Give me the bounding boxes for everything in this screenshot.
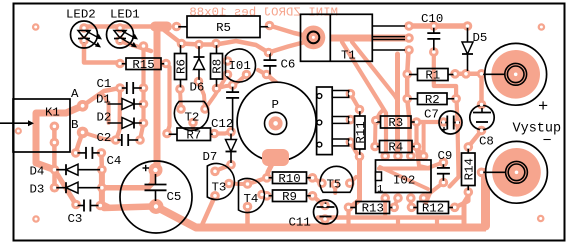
pad (232.6,85) [228, 80, 238, 90]
pad (166,63.5) [161, 59, 171, 69]
resistor R13 [349, 202, 395, 216]
svg-text:I01: I01 [229, 59, 251, 73]
svg-text:R1: R1 [425, 69, 440, 83]
pad (76,204.5) [71, 200, 81, 210]
pad (325,205.5) [320, 201, 330, 211]
transistor T1 [301, 14, 406, 62]
svg-text:C1: C1 [97, 77, 112, 91]
wire lower rail [318, 215, 462, 220]
resistor R12 [412, 202, 455, 216]
mounting hole top right [538, 23, 546, 31]
wire I02 bottom 3 [409, 198, 413, 207]
wire ground band [196, 224, 486, 232]
pad (409,26) [404, 21, 414, 31]
wire T3 bottom diagonal [202, 196, 215, 225]
pad (467.5,26) [463, 21, 473, 31]
wire riser C11 [323, 219, 327, 228]
pad (167,133.5) [162, 129, 172, 139]
diode D3 [30, 182, 102, 196]
pad (246.5,74.5) [242, 70, 252, 80]
wire T5 right stub [350, 177, 356, 183]
pad (350.4,93.7) [346, 89, 356, 99]
mounting hole bottom left [32, 215, 40, 223]
pad (407.2,74) [402, 69, 412, 79]
pad (269.5,25.5) [265, 21, 275, 31]
pad (409,50) [404, 45, 414, 55]
wire D3 to C5 plus [104, 171, 155, 188]
resistor R6 [175, 44, 189, 90]
wire R10 left to T4 top [248, 178, 267, 184]
pad (385.2,156) [380, 151, 390, 161]
resistor R4 [375, 141, 417, 155]
wire T1 bottom to R1 R2 lefts [407, 50, 411, 157]
svg-text:T4: T4 [244, 192, 259, 206]
resistor R9 [267, 190, 313, 204]
pad (359.5,109.5) [355, 105, 365, 115]
pad (423.6,156) [419, 151, 429, 161]
pad (54.4,142.5) [50, 138, 60, 148]
node junction blob [155, 22, 167, 32]
pad (468.3,146.9) [464, 142, 474, 152]
wire riser x398 [396, 218, 400, 228]
wire R4 right to C9 top [417, 147, 444, 169]
wire R3 left stub [376, 110, 384, 121]
pad (215,171.3) [210, 167, 220, 177]
capacitor C7 [424, 108, 462, 135]
wire T1 to I02 diagonal [352, 42, 398, 100]
pad (180,89) [175, 84, 185, 94]
wire C6 top to T1 pad [269, 40, 312, 53]
output terminal plus [481, 43, 546, 105]
resistor R3 [376, 116, 417, 130]
pad (433.8,26) [429, 21, 439, 31]
svg-text:B: B [71, 118, 78, 132]
svg-text:C9: C9 [438, 149, 453, 163]
diode D7 [203, 132, 237, 165]
pad (205,109) [200, 104, 210, 114]
wire LED2 bottom to R15 [84, 41, 120, 64]
label plus [538, 98, 548, 117]
wire C10 bottom down [434, 52, 456, 99]
svg-text:LED2: LED2 [66, 8, 96, 22]
pad (120,28) [115, 23, 125, 33]
pad (481.5,104.5) [477, 100, 487, 110]
svg-text:Vystup: Vystup [513, 122, 562, 137]
svg-text:MINI ZDROJ bes 10x88: MINI ZDROJ bes 10x88 [189, 6, 338, 20]
transistor T2 [174, 101, 208, 130]
svg-text:R13: R13 [362, 202, 384, 216]
pad (375.8,120.5) [371, 116, 381, 126]
pad (468.3,192) [464, 187, 474, 197]
svg-text:R10: R10 [278, 172, 300, 186]
svg-text:R15: R15 [132, 58, 154, 72]
wire C9 bottom diagonal [424, 183, 443, 198]
svg-text:P: P [272, 98, 279, 112]
pad (54.5,187.7) [50, 183, 60, 193]
wire blob to D6 R8 pads [164, 30, 269, 53]
svg-text:R14: R14 [462, 158, 476, 180]
resistor R1 [407, 69, 455, 83]
resistor R5 [177, 16, 270, 38]
pad (349.8,183.2) [345, 178, 355, 188]
pad (321.9,183.2) [317, 178, 327, 188]
svg-text:R12: R12 [422, 202, 444, 216]
pad (143.5,88) [139, 83, 149, 93]
wire top rail T1 to D5 [409, 23, 468, 29]
pad (176.5,26.5) [172, 22, 182, 32]
pad (120,88) [115, 83, 125, 93]
wire I01 to C12 [233, 75, 247, 86]
wire blob to R10 left [267, 164, 272, 178]
capacitor C3 [68, 200, 101, 227]
mounting hole top left [32, 23, 40, 31]
pad (398,156) [393, 151, 403, 161]
pad (409,38) [404, 33, 414, 43]
wire C4 right down [99, 153, 104, 170]
pad (181.5,43.5) [177, 39, 187, 49]
svg-text:D3: D3 [30, 183, 45, 197]
wire R10 right to T5 left [313, 178, 323, 183]
wire T1 to I02 pad1 diagonal [342, 42, 386, 156]
pad (385.2,198) [380, 193, 390, 203]
pad (262,194.5) [257, 190, 267, 200]
svg-text:R4: R4 [388, 141, 403, 155]
LED D-LED1 [107, 21, 139, 48]
pad (416.5,122) [412, 117, 422, 127]
pad (101.4,152.9) [97, 148, 107, 158]
pad (466,73.8) [461, 69, 471, 79]
wire T4 bottom down [245, 207, 250, 228]
resistor R8 [211, 44, 225, 89]
wire R9 right to C11 top [313, 196, 326, 206]
pad (481.5,172.3) [477, 168, 487, 178]
pad (101.9,187.7) [97, 183, 107, 193]
pad (247.5,184) [243, 179, 253, 189]
svg-text:−: − [543, 133, 552, 150]
svg-text:C6: C6 [281, 58, 296, 72]
capacitor C11 [289, 200, 338, 230]
wire I02 bottom 2 [394, 198, 398, 207]
pad (443.4,182.5) [439, 178, 449, 188]
diode D1 [96, 93, 144, 110]
pad (227.5,74.5) [223, 70, 233, 80]
pad (75.7,152.9) [71, 148, 81, 158]
svg-text:A: A [71, 87, 79, 101]
pad (443.4,162.4) [439, 158, 449, 168]
wire D7 bottom to T3 top [215, 165, 231, 172]
wire C8 bottom to R14 [468, 131, 481, 147]
wire terminal2 lead [482, 170, 492, 175]
resistor R15 [120, 58, 166, 72]
wire I01 to T2 right [205, 75, 228, 110]
wire LED1 bottom to vertical [120, 41, 151, 51]
pad (457.5,122.5) [453, 118, 463, 128]
wire K1 inner pads [52, 126, 57, 169]
wire LED tops [84, 24, 152, 29]
pad (216.5,88.5) [212, 84, 222, 94]
pad (247.5,206.5) [243, 202, 253, 212]
pad (115.7,140) [111, 135, 121, 145]
wire P bottom pad down [350, 142, 359, 156]
wire R4 right to I02 pad4 [417, 148, 424, 157]
pad (394.2,207.3) [389, 203, 399, 213]
pad P center [269, 116, 283, 130]
svg-text:R9: R9 [282, 190, 297, 204]
svg-text:R5: R5 [216, 21, 231, 35]
wire C7 right to R2 right [457, 99, 458, 123]
pad (481.5,73.8) [477, 69, 487, 79]
pad (423.6,198) [419, 193, 429, 203]
svg-text:+: + [538, 98, 548, 117]
svg-text:R3: R3 [388, 116, 403, 130]
wire R1 right rail to terminal [455, 72, 491, 77]
pad (443.5,122) [439, 117, 449, 127]
label LED1 [110, 8, 140, 22]
pad (198.5,81.5) [194, 77, 204, 87]
pad (410.8,156) [406, 151, 416, 161]
svg-text:K1: K1 [45, 106, 60, 120]
pad (375,146.5) [370, 142, 380, 152]
transistor T3 [207, 164, 234, 200]
wire R15 right to R7 left [166, 64, 170, 134]
pad (266.5,74.5) [262, 70, 272, 80]
pad (481.5,130.5) [477, 126, 487, 136]
svg-text:1: 1 [377, 184, 383, 196]
wire riser R13 [346, 211, 350, 228]
wire R6 bottom to T2 [180, 89, 181, 109]
potentiometer P [237, 82, 349, 161]
wire I01 right to C6 bottom [258, 70, 267, 75]
wire vertical x397 [395, 54, 401, 156]
svg-text:T3: T3 [212, 181, 227, 195]
op-amp I01 [226, 49, 256, 82]
svg-text:C10: C10 [421, 12, 443, 26]
resistor R14 [462, 147, 477, 192]
svg-text:C8: C8 [479, 135, 494, 149]
svg-text:C12: C12 [211, 117, 233, 131]
pad (143.5,123) [139, 118, 149, 128]
pad (143.5,46) [139, 41, 149, 51]
wire C1 right column [140, 46, 144, 140]
svg-text:C7: C7 [424, 108, 439, 122]
svg-text:R11: R11 [354, 121, 368, 143]
resistor R10 [267, 172, 313, 186]
svg-text:C5: C5 [167, 190, 182, 204]
wire D6 bottom down [199, 82, 206, 110]
wire D4 to C3 diagonal [55, 170, 77, 205]
wire R14 bottom to R12 right [455, 192, 469, 207]
svg-text:R8: R8 [211, 59, 225, 74]
wire K1 A to C1 [83, 88, 120, 106]
pad (312.5,177.8) [308, 173, 318, 183]
wire T5 center down [333, 185, 337, 194]
pad (181,109) [176, 104, 186, 114]
svg-text:D5: D5 [473, 31, 488, 45]
svg-text:I02: I02 [393, 174, 415, 188]
pad (54.4,126.3) [50, 122, 60, 132]
op-amp I02 [376, 160, 432, 196]
diode D2 [97, 111, 144, 129]
pad (215,195.8) [210, 191, 220, 201]
wire riser x437 [435, 218, 439, 228]
pad (216,43.5) [211, 39, 221, 49]
wire I02 horizontal inside [379, 167, 429, 171]
capacitor C10 [421, 12, 443, 52]
wire R8 bottom to C12 [217, 86, 233, 89]
svg-text:D2: D2 [97, 111, 112, 125]
pad (398,198) [393, 193, 403, 203]
pad (350.4,142.1) [346, 137, 356, 147]
node blob under P [262, 149, 289, 166]
pad (120,63.5) [115, 59, 125, 69]
diode D5 [462, 26, 487, 71]
pad (433.8,52) [429, 47, 439, 57]
capacitor C6 [264, 53, 296, 75]
pad (266.8,195.8) [262, 191, 272, 201]
svg-text:D7: D7 [203, 150, 218, 164]
wire terminal2 to band [481, 172, 490, 226]
wire I02 diagonal inside [380, 167, 428, 189]
pad (84,40.5) [79, 36, 89, 46]
svg-text:T1: T1 [341, 49, 356, 63]
svg-text:LED1: LED1 [110, 8, 140, 22]
wire R3 right to C7 [417, 120, 444, 124]
pad (325,219) [320, 214, 330, 224]
label LED2 [66, 8, 96, 22]
pad K1 B [77, 127, 89, 139]
transistor T4 [239, 179, 265, 213]
label Vystup [513, 122, 562, 137]
pad (227.5,61) [223, 56, 233, 66]
wire T4 right to R9 left [262, 195, 267, 196]
pad (456.1,98.7) [451, 94, 461, 104]
wire P top to R11 top [350, 94, 359, 110]
capacitor C9 [437, 149, 452, 183]
transistor T5 [320, 166, 353, 192]
pad K1 A [77, 100, 89, 112]
svg-text:R2: R2 [425, 93, 440, 107]
wire K1 B to C4 [76, 132, 83, 153]
pad (335.2,184.5) [330, 180, 340, 190]
pad (143.5,104) [139, 99, 149, 109]
pad C5 center [149, 199, 164, 214]
wire C1 left column [116, 88, 120, 140]
resistor R11 [354, 110, 368, 157]
wire R7 right to D7 top [214, 132, 231, 134]
capacitor C12 [211, 85, 239, 132]
capacitor C2 [97, 131, 141, 146]
pad (359.5,156.5) [355, 152, 365, 162]
wire T1 middle thick [330, 35, 409, 42]
svg-text:R6: R6 [175, 59, 189, 74]
pad (407.2,98.7) [402, 94, 412, 104]
wire D4 D3 lefts [52, 170, 57, 188]
svg-text:D4: D4 [30, 165, 45, 179]
pad (54.5,169.7) [50, 165, 60, 175]
wire T2 center stub [191, 123, 195, 129]
pad (199,44.5) [194, 40, 204, 50]
wire R3 R4 lefts [373, 121, 378, 147]
diode D4 [30, 164, 102, 178]
pad (454.7,207.3) [450, 203, 460, 213]
wire D3 column down [102, 170, 110, 208]
output terminal minus [482, 141, 547, 203]
wire K1 big trace [36, 106, 83, 170]
svg-text:C11: C11 [289, 216, 311, 230]
wire I02 pin fan 4 [422, 122, 426, 156]
pad (455.1,73.8) [450, 69, 460, 79]
pad K1 inner [15, 127, 22, 134]
pad (193,122.5) [188, 118, 198, 128]
svg-text:C3: C3 [68, 212, 83, 226]
wire C7 right down C9 [450, 123, 459, 187]
wire I02 bottom 4 [424, 193, 430, 203]
pad (84,28) [79, 23, 89, 33]
capacitor C5 [120, 161, 192, 233]
pad (231,131.8) [226, 127, 236, 137]
resistor R2 [407, 93, 456, 107]
svg-text:C4: C4 [107, 154, 122, 168]
pad (266.8,177.8) [262, 173, 272, 183]
label minus [543, 133, 552, 150]
svg-text:C2: C2 [97, 131, 112, 145]
wire R14 bottom to band [464, 196, 468, 226]
wire C5 to band diagonal [156, 207, 196, 228]
diode D6 [190, 45, 205, 95]
pad (229,183.5) [224, 179, 234, 189]
mirrored copper text MINI ZDROJ bes 10x88 [189, 6, 338, 20]
pad (411.5,207.3) [407, 203, 417, 213]
pad C5 plus [149, 163, 163, 177]
pad (312.5,195.8) [308, 191, 318, 201]
wire D1 D2 lefts [104, 96, 109, 123]
pad (101.9,169.7) [97, 165, 107, 175]
pad (268.5,52.5) [264, 48, 274, 58]
capacitor C4 [76, 147, 122, 168]
pad (350.4,119.6) [346, 115, 356, 125]
capacitor C1 [97, 77, 144, 94]
pad (120,40.5) [115, 36, 125, 46]
capacitor C8 [470, 105, 494, 148]
LED D-LED2 [71, 21, 103, 48]
wire R11 bottom to R13 left [349, 157, 360, 208]
pad (100.3,205.5) [96, 201, 106, 211]
svg-text:D6: D6 [190, 81, 205, 95]
connector K1 [0, 87, 79, 152]
wire T3 right to T4 [229, 182, 248, 187]
wire C6 bottom diag [267, 75, 285, 91]
wire R5 right to T1 pad [270, 26, 310, 37]
wire I02 bottom 1 [383, 198, 387, 218]
svg-text:D1: D1 [96, 93, 111, 107]
wire K1 B to C2 [83, 132, 116, 140]
pad (140,140) [135, 135, 145, 145]
mounting hole bottom right [537, 215, 545, 223]
pad (231,164.7) [226, 160, 236, 170]
resistor R7 [167, 128, 214, 142]
pad (410.8,198) [406, 193, 416, 203]
pad (348.5,207.3) [344, 203, 354, 213]
pad (214.3,133.5) [210, 129, 220, 139]
wire vertical main left [154, 31, 161, 167]
pad (416.5,146.5) [412, 142, 422, 152]
wire R3 R4 rights [414, 122, 418, 147]
drill holes [17, 24, 543, 221]
wire bottom left horizontal [104, 207, 152, 209]
wire C8 top [479, 74, 484, 105]
